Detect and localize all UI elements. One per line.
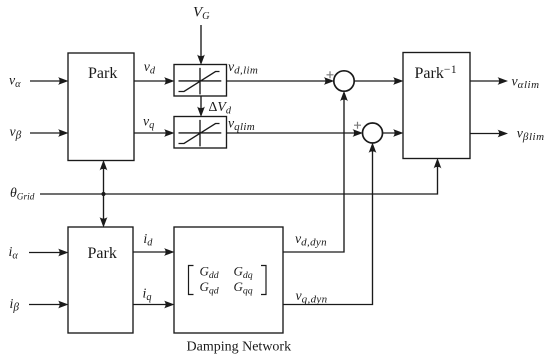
svg-text:id: id xyxy=(143,231,153,249)
svg-text:vq,dyn: vq,dyn xyxy=(296,288,328,306)
svg-text:Park: Park xyxy=(88,65,117,82)
svg-text:vd,dyn: vd,dyn xyxy=(295,231,327,249)
svg-text:vβ: vβ xyxy=(10,124,22,142)
svg-text:iq: iq xyxy=(143,286,152,304)
svg-text:Park: Park xyxy=(88,245,117,262)
svg-text:Damping Network: Damping Network xyxy=(187,340,292,355)
svg-text:vd: vd xyxy=(144,59,156,77)
svg-text:vβlim: vβlim xyxy=(517,126,545,144)
svg-text:Gqq: Gqq xyxy=(234,279,253,297)
svg-text:ΔVd: ΔVd xyxy=(209,99,232,117)
svg-text:θGrid: θGrid xyxy=(10,185,35,203)
svg-text:Gqd: Gqd xyxy=(200,279,219,297)
svg-text:iα: iα xyxy=(9,244,19,262)
svg-text:VG: VG xyxy=(193,5,210,23)
svg-text:vq: vq xyxy=(143,114,154,132)
svg-text:vqlim: vqlim xyxy=(228,116,255,134)
svg-text:vd,lim: vd,lim xyxy=(228,59,258,77)
svg-text:vαlim: vαlim xyxy=(512,74,540,92)
svg-text:Park−1: Park−1 xyxy=(415,64,458,82)
svg-text:iβ: iβ xyxy=(10,296,20,314)
svg-text:vα: vα xyxy=(9,73,21,91)
